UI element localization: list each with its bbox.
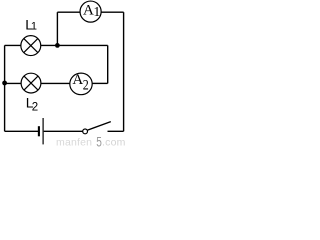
node junction dot (left edge / L2 tap)	[2, 81, 7, 86]
svg-text:A: A	[83, 3, 94, 19]
lamp L2	[21, 73, 41, 93]
battery B1 short thick plate (negative)	[38, 126, 40, 136]
wire top left (junction vertical to A1)	[57, 11, 80, 13]
lamp L1	[21, 36, 41, 56]
switch S lever (open)	[88, 122, 111, 131]
wire right edge	[123, 12, 125, 131]
battery B1 long thin plate (positive)	[42, 118, 44, 144]
wire switch contact to right edge	[108, 130, 124, 132]
wire L2 to A2	[41, 82, 70, 84]
wire L2 row left	[5, 82, 22, 84]
svg-text:2: 2	[32, 102, 38, 114]
ammeter A1 circle	[80, 1, 101, 22]
wire left edge	[4, 45, 6, 131]
svg-text:.com: .com	[102, 136, 126, 148]
svg-text:1: 1	[93, 5, 100, 20]
svg-text:manfen: manfen	[56, 136, 92, 148]
label L2	[26, 95, 38, 114]
wire top right (A1 to right edge)	[101, 11, 124, 13]
svg-text:1: 1	[31, 21, 37, 33]
wire battery to switch	[44, 130, 83, 132]
switch S pivot	[83, 129, 88, 134]
ammeter A2 circle	[70, 73, 92, 95]
label L1	[25, 16, 37, 32]
wire inner vertical (A2 branch up)	[107, 45, 109, 83]
svg-text:2: 2	[83, 78, 89, 94]
wire A2 to inner vertical	[92, 82, 108, 84]
wire L1 row left	[5, 44, 21, 46]
wire vertical from node to top	[56, 12, 58, 45]
wire L1 row right (through node to inner vertical)	[41, 44, 108, 46]
node junction dot (L1/A1)	[55, 43, 60, 48]
svg-text:A: A	[72, 72, 83, 88]
wire bottom left (to battery)	[5, 130, 38, 132]
